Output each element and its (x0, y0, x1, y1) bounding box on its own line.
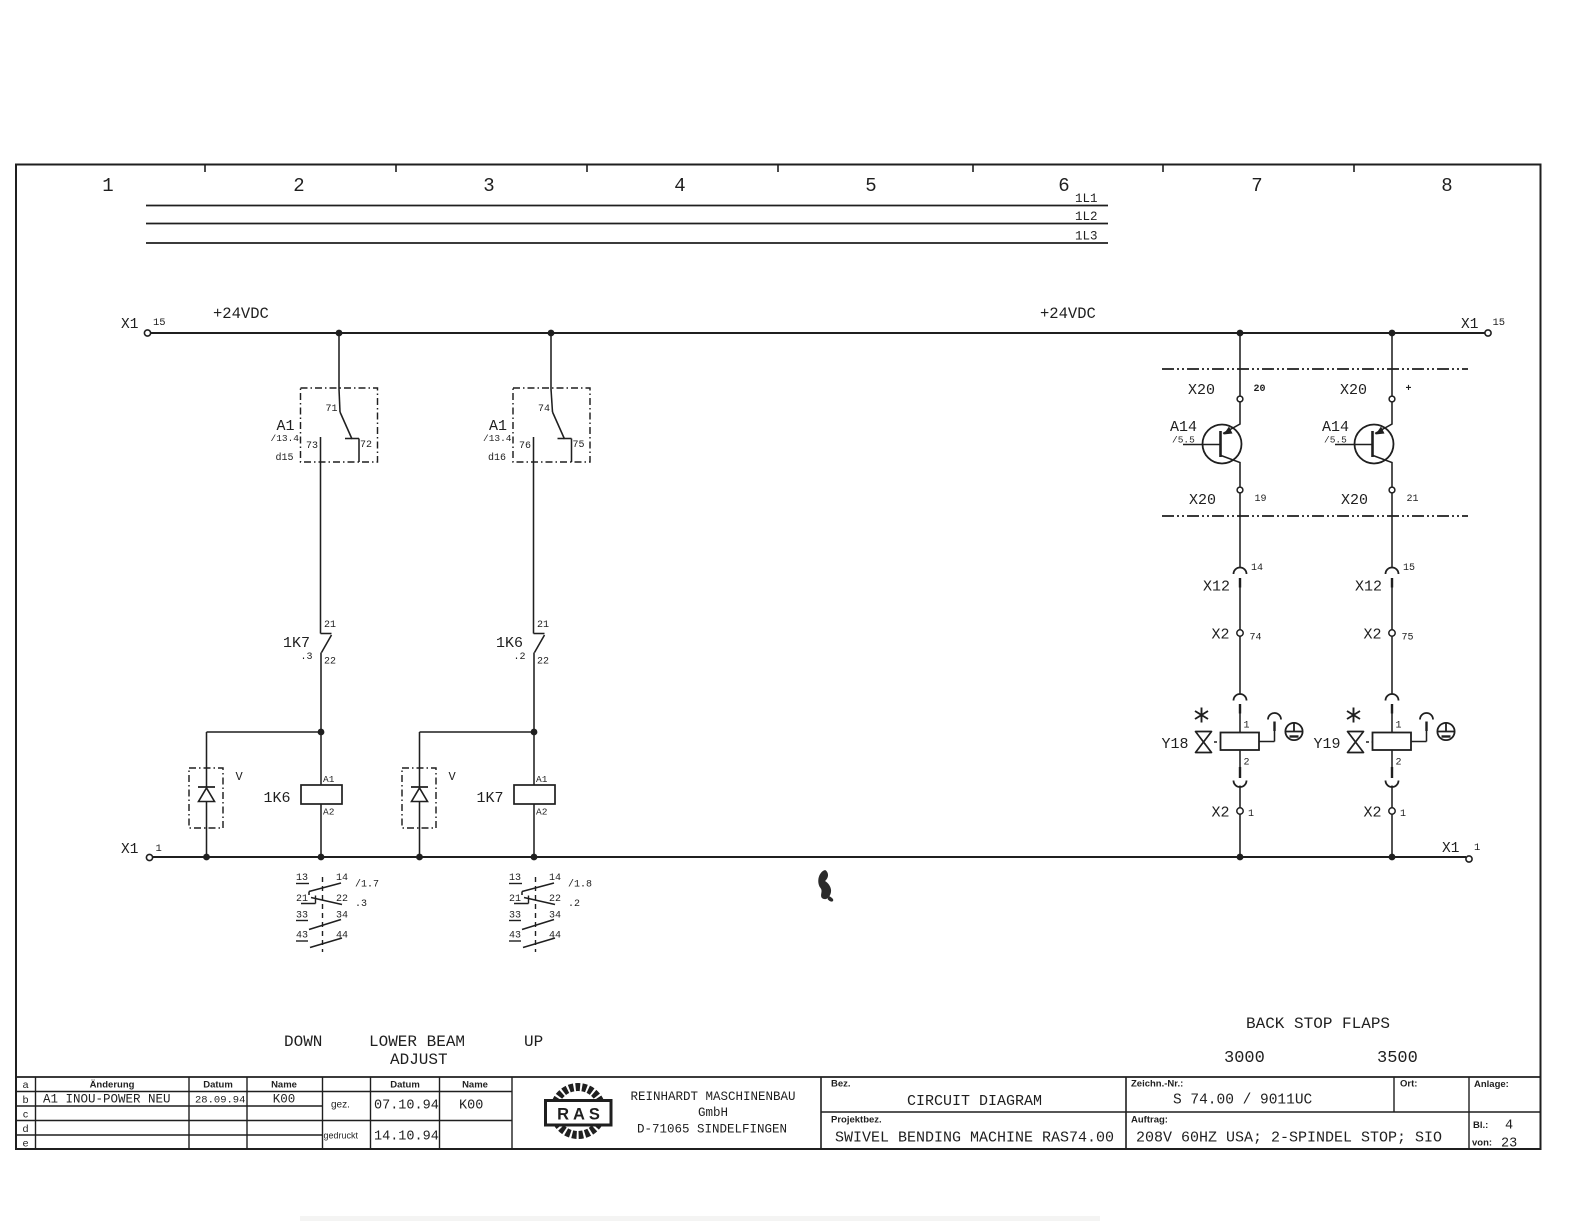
svg-text:14: 14 (1251, 563, 1263, 574)
contact cross-reference table 1K7 (509, 873, 561, 952)
svg-text:1L1: 1L1 (1075, 192, 1098, 206)
transistor amplifier A14 (Y18 driver) (1170, 402, 1242, 487)
caption DOWN (284, 1033, 322, 1051)
field Bez: CIRCUIT DIAGRAM (831, 1079, 1042, 1111)
svg-text:A1 INOU-POWER NEU: A1 INOU-POWER NEU (43, 1093, 171, 1107)
suppressor diode module V (1K7) (402, 768, 457, 857)
svg-text:BACK STOP FLAPS: BACK STOP FLAPS (1246, 1015, 1390, 1033)
svg-text:X20: X20 (1188, 382, 1215, 399)
svg-text:X20: X20 (1189, 492, 1216, 509)
svg-text:43: 43 (296, 931, 308, 942)
wire X20:21 to connector X12 (1391, 493, 1393, 567)
node Y19 to 0V bus (1389, 854, 1396, 861)
indicator asterisk Y19 (1347, 708, 1360, 723)
svg-text:1K6: 1K6 (264, 790, 291, 807)
terminal X20:+ (1340, 382, 1412, 402)
caption 3500 (1377, 1049, 1418, 1068)
cross-reference destination labels /1.8 .2 (568, 879, 592, 911)
relay contact block A1 d16 (pins 74-75-76) (483, 388, 590, 464)
svg-text:14.10.94: 14.10.94 (374, 1130, 439, 1145)
svg-text:6: 6 (1058, 175, 1069, 197)
svg-text:72: 72 (360, 440, 372, 451)
svg-text:gedruckt: gedruckt (324, 1131, 359, 1141)
field Anlage (1474, 1079, 1509, 1090)
svg-text:X12: X12 (1203, 579, 1230, 596)
wire coil Y18 to PE connector (1259, 713, 1281, 741)
svg-text:1K7: 1K7 (283, 635, 310, 652)
terminal X20:20 (1188, 382, 1266, 402)
svg-text:Y18: Y18 (1162, 736, 1189, 753)
wire connector to coil Y19 (1391, 714, 1393, 733)
net label +24VDC left (213, 305, 269, 323)
contact cross-reference table 1K6 (296, 873, 348, 952)
svg-text:Datum: Datum (390, 1080, 420, 1091)
svg-text:4: 4 (1505, 1119, 1513, 1134)
company address (630, 1090, 795, 1137)
field Zeichn-Nr: S 74.00 / 9011UC (1131, 1079, 1313, 1109)
wire bus to X20:+ (1391, 333, 1393, 396)
svg-text:K00: K00 (273, 1093, 296, 1107)
svg-text:d: d (23, 1123, 29, 1135)
svg-text:X20: X20 (1341, 492, 1368, 509)
svg-text:Ort:: Ort: (1400, 1079, 1417, 1090)
drawn/printed cells (324, 1099, 484, 1145)
wire X2:75 to valve connector (1391, 636, 1393, 694)
protective earth symbol (Y19) (1437, 723, 1454, 740)
terminal X2:75 (1364, 627, 1414, 644)
wire +24VDC bus (151, 332, 1486, 334)
wire X2:1 to 0V bus (Y18) (1239, 814, 1241, 857)
svg-text:74: 74 (538, 404, 550, 415)
svg-text:Anlage:: Anlage: (1474, 1079, 1509, 1090)
svg-text:Bl.:: Bl.: (1473, 1120, 1488, 1131)
wire 0V bus (153, 856, 1467, 858)
field Bl 4 von 23 (1472, 1119, 1517, 1152)
svg-text:LOWER BEAM: LOWER BEAM (369, 1033, 465, 1051)
NC contact 1K7.3 (21-22) (283, 620, 336, 668)
terminal X20:19 (1189, 487, 1267, 509)
wire branch to suppressor diode V (420, 732, 535, 768)
suppressor diode module V (1K6) (189, 768, 244, 857)
transistor amplifier A14 (Y19 driver) (1322, 402, 1394, 487)
wire contact 1K7 to coil node (320, 653, 322, 733)
field Auftrag: 208V 60HZ USA (1131, 1115, 1442, 1147)
svg-text:X1: X1 (121, 842, 138, 858)
svg-text:e: e (23, 1138, 29, 1150)
field Projektbez: SWIVEL BENDING MACHINE (831, 1115, 1114, 1147)
svg-text:1: 1 (1248, 809, 1254, 820)
svg-text:7: 7 (1251, 175, 1262, 197)
svg-text:5: 5 (865, 175, 876, 197)
terminal X2:1 (Y19) (1364, 805, 1407, 822)
svg-text:19: 19 (1255, 494, 1267, 505)
wire connector to X2:1 (Y19) (1391, 786, 1393, 808)
relay coil 1K6 (A1-A2) (264, 774, 343, 818)
svg-text:15: 15 (1403, 563, 1415, 574)
terminal X20:21 (1341, 487, 1419, 509)
svg-text:3000: 3000 (1224, 1049, 1265, 1068)
wire phase line 1L2 (146, 210, 1108, 224)
svg-text:c: c (23, 1109, 28, 1121)
wire coil 1K7 A2 to 0V bus (533, 804, 535, 857)
revision table headers (90, 1080, 488, 1091)
svg-text:2: 2 (293, 175, 304, 197)
svg-text:Auftrag:: Auftrag: (1131, 1115, 1168, 1126)
wire branch to suppressor diode V (207, 732, 322, 768)
svg-text:1K7: 1K7 (477, 790, 504, 807)
valve connector plug pin 2 (Y19) (1386, 750, 1402, 787)
boundary dash-dot line A14 module top (1162, 368, 1468, 370)
caption 3000 (1224, 1049, 1265, 1068)
caption ADJUST (390, 1051, 448, 1069)
svg-text:Zeichn.-Nr.:: Zeichn.-Nr.: (1131, 1079, 1183, 1090)
svg-text:/13.4: /13.4 (483, 433, 512, 444)
wire X2:1 to 0V bus (Y19) (1391, 814, 1393, 857)
terminal X1:1 right (1442, 841, 1480, 862)
wire bus to relay contact A1 d15 (338, 333, 340, 389)
protective earth symbol (Y18) (1285, 723, 1302, 740)
svg-text:R A S: R A S (557, 1106, 600, 1124)
svg-text:X1: X1 (1461, 317, 1478, 333)
svg-text:A1: A1 (323, 774, 335, 785)
svg-text:22: 22 (324, 657, 336, 668)
svg-text:X2: X2 (1212, 627, 1230, 644)
wire phase line 1L1 (146, 192, 1108, 206)
wire node to coil 1K7 A1 (533, 732, 535, 785)
terminal X1:15 left (121, 317, 166, 336)
svg-text:21: 21 (324, 620, 336, 631)
svg-text:1L3: 1L3 (1075, 230, 1098, 244)
svg-text:X12: X12 (1355, 579, 1382, 596)
valve connector plug pin 2 (Y18) (1234, 750, 1250, 787)
node coil/diode branch (318, 729, 325, 736)
svg-text:3500: 3500 (1377, 1049, 1418, 1068)
svg-text:4: 4 (674, 175, 685, 197)
node bus junction above A1 d16 (548, 330, 555, 337)
svg-text:3: 3 (483, 175, 494, 197)
svg-text:1: 1 (1244, 721, 1250, 732)
cross-reference destination labels /1.7 .3 (355, 879, 379, 911)
node bus junction Y18 column (1237, 330, 1244, 337)
svg-text:X2: X2 (1212, 805, 1230, 822)
wire phase line 1L3 (146, 230, 1108, 244)
svg-text:/1.7: /1.7 (355, 879, 379, 891)
boundary dash-dot line A14 module bottom (1162, 515, 1468, 517)
svg-text:74: 74 (1250, 633, 1262, 644)
svg-text:a: a (23, 1079, 29, 1091)
svg-text:2: 2 (1244, 758, 1250, 769)
svg-text:20: 20 (1254, 384, 1266, 395)
svg-text:75: 75 (573, 440, 585, 451)
svg-text:76: 76 (519, 441, 531, 452)
field Ort (1400, 1079, 1417, 1090)
wire X12 to X2:75 (1391, 588, 1393, 630)
svg-text:X2: X2 (1364, 805, 1382, 822)
wire contact 1K6 to coil node (533, 653, 535, 733)
svg-text:71: 71 (326, 404, 338, 415)
svg-text:/1.8: /1.8 (568, 879, 592, 891)
svg-text:23: 23 (1501, 1137, 1517, 1152)
relay contact block A1 d15 (pins 71-72-73) (271, 388, 378, 464)
svg-text:Bez.: Bez. (831, 1079, 851, 1090)
svg-text:1: 1 (1396, 721, 1402, 732)
terminal X2:1 (Y18) (1212, 805, 1255, 822)
valve symbol Y18 (1196, 732, 1221, 753)
svg-text:+: + (1406, 384, 1412, 395)
solenoid valve coil Y19 (1314, 733, 1412, 754)
svg-text:.3: .3 (301, 652, 313, 663)
svg-text:1: 1 (156, 843, 162, 855)
wire pin 73 down to contact 1K7 (320, 462, 322, 630)
RAS company logo (546, 1087, 612, 1135)
wire X20:19 to connector X12 (1239, 493, 1241, 567)
wire connector to coil Y18 (1239, 714, 1241, 733)
svg-text:A2: A2 (323, 807, 335, 818)
svg-text:X1: X1 (121, 317, 138, 333)
svg-text:+24VDC: +24VDC (213, 305, 269, 323)
svg-text:14: 14 (336, 873, 348, 884)
solenoid valve coil Y18 (1162, 733, 1260, 754)
svg-text:von:: von: (1472, 1138, 1492, 1149)
svg-text:15: 15 (153, 317, 166, 329)
node coil 1K6 to 0V bus (318, 854, 325, 861)
svg-text:Projektbez.: Projektbez. (831, 1115, 882, 1126)
svg-text:DOWN: DOWN (284, 1033, 322, 1051)
indicator asterisk Y18 (1195, 708, 1208, 723)
svg-text:73: 73 (306, 441, 318, 452)
svg-text:07.10.94: 07.10.94 (374, 1099, 439, 1114)
svg-text:208V 60HZ USA; 2-SPINDEL STOP;: 208V 60HZ USA; 2-SPINDEL STOP; SIO (1136, 1130, 1442, 1147)
svg-text:1L2: 1L2 (1075, 210, 1098, 224)
svg-text:UP: UP (524, 1033, 543, 1051)
svg-text:28.09.94: 28.09.94 (195, 1095, 245, 1107)
connector X12:14 (1203, 563, 1263, 596)
svg-text:/13.4: /13.4 (271, 433, 300, 444)
net label +24VDC right (1040, 305, 1096, 323)
svg-text:.2: .2 (514, 652, 526, 663)
valve connector plug pin 1 (Y18) (1234, 694, 1250, 732)
svg-text:43: 43 (509, 931, 521, 942)
revision entry row b (43, 1093, 295, 1107)
svg-text:+24VDC: +24VDC (1040, 305, 1096, 323)
ink smudge artifact (818, 870, 833, 901)
svg-text:GmbH: GmbH (698, 1106, 728, 1120)
wire connector to X2:1 (Y18) (1239, 786, 1241, 808)
svg-text:X2: X2 (1364, 627, 1382, 644)
svg-text:A14: A14 (1322, 419, 1349, 436)
svg-text:A14: A14 (1170, 419, 1197, 436)
svg-text:K00: K00 (459, 1099, 483, 1114)
wire bus to X20:20 (1239, 333, 1241, 396)
svg-text:1: 1 (1400, 809, 1406, 820)
svg-text:Name: Name (462, 1080, 488, 1091)
svg-text:21: 21 (537, 620, 549, 631)
wire node to coil 1K6 A1 (320, 732, 322, 785)
svg-text:13: 13 (509, 873, 521, 884)
caption BACK STOP FLAPS (1246, 1015, 1390, 1033)
svg-text:V: V (449, 770, 457, 784)
svg-text:b: b (23, 1094, 29, 1106)
svg-text:X1: X1 (1442, 841, 1459, 857)
svg-text:ADJUST: ADJUST (390, 1051, 448, 1069)
caption UP (524, 1033, 543, 1051)
svg-text:8: 8 (1441, 175, 1452, 197)
svg-text:Änderung: Änderung (90, 1080, 135, 1091)
svg-text:Datum: Datum (203, 1080, 233, 1091)
svg-text:S 74.00 / 9011UC: S 74.00 / 9011UC (1173, 1093, 1313, 1109)
node bus junction above A1 d15 (336, 330, 343, 337)
svg-text:SWIVEL BENDING MACHINE RAS74.0: SWIVEL BENDING MACHINE RAS74.00 (835, 1130, 1114, 1147)
terminal X1:1 left (121, 842, 162, 861)
terminal X2:74 (1212, 627, 1262, 644)
svg-text:CIRCUIT DIAGRAM: CIRCUIT DIAGRAM (907, 1093, 1042, 1110)
node Y18 to 0V bus (1237, 854, 1244, 861)
svg-text:22: 22 (537, 657, 549, 668)
svg-text:1: 1 (1474, 842, 1480, 854)
svg-text:1K6: 1K6 (496, 635, 523, 652)
svg-text:gez.: gez. (331, 1100, 350, 1111)
svg-text:.2: .2 (568, 899, 580, 910)
terminal X1:15 right (1461, 317, 1505, 336)
svg-text:.3: .3 (355, 899, 367, 910)
title block grid (16, 1077, 1541, 1149)
wire coil 1K6 A2 to 0V bus (320, 804, 322, 857)
node bus junction Y19 column (1389, 330, 1396, 337)
caption LOWER BEAM (369, 1033, 465, 1051)
wire X2:74 to valve connector (1239, 636, 1241, 694)
svg-text:14: 14 (549, 873, 561, 884)
wire bus to relay contact A1 d16 (550, 333, 552, 389)
relay coil 1K7 (A1-A2) (477, 774, 556, 818)
svg-text:A1: A1 (536, 774, 548, 785)
svg-text:13: 13 (296, 873, 308, 884)
svg-text:1: 1 (102, 175, 113, 197)
revision table row letters (23, 1079, 29, 1150)
svg-text:21: 21 (1407, 494, 1419, 505)
wire X12 to X2:74 (1239, 588, 1241, 630)
svg-text:75: 75 (1402, 633, 1414, 644)
node coil 1K7 to 0V bus (531, 854, 538, 861)
svg-text:X20: X20 (1340, 382, 1367, 399)
valve connector plug pin 1 (Y19) (1386, 694, 1402, 732)
svg-text:2: 2 (1396, 758, 1402, 769)
svg-text:15: 15 (1493, 317, 1506, 329)
svg-text:Y19: Y19 (1314, 736, 1341, 753)
NC contact 1K6.2 (21-22) (496, 620, 549, 668)
svg-text:REINHARDT MASCHINENBAU: REINHARDT MASCHINENBAU (630, 1090, 795, 1104)
wire pin 76 down to contact 1K6 (533, 462, 535, 630)
svg-text:d15: d15 (276, 452, 294, 464)
connector X12:15 (1355, 563, 1415, 596)
node diode to 0V bus (416, 854, 423, 861)
wire coil Y19 to PE connector (1411, 713, 1433, 741)
svg-text:d16: d16 (488, 452, 506, 464)
svg-text:D-71065 SINDELFINGEN: D-71065 SINDELFINGEN (637, 1123, 787, 1137)
node diode to 0V bus (203, 854, 210, 861)
svg-text:V: V (236, 770, 244, 784)
node coil/diode branch (531, 729, 538, 736)
svg-text:Name: Name (271, 1080, 297, 1091)
svg-text:A2: A2 (536, 807, 548, 818)
valve symbol Y19 (1348, 732, 1373, 753)
